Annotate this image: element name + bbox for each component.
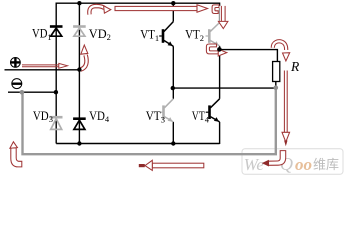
svg-text:We: We <box>244 155 265 174</box>
arrow curl at top of VD2 branch <box>89 6 110 15</box>
wire bottom rail <box>56 143 219 145</box>
svg-text:VD3: VD3 <box>33 109 53 124</box>
diode VD1 <box>50 25 63 36</box>
diode VD3 <box>50 116 63 129</box>
wire VD1/VD3 branch vertical <box>55 3 57 144</box>
arrow curl at node B turning right <box>206 44 226 56</box>
svg-text:维库: 维库 <box>313 157 339 172</box>
junction dot positive lead at VD2 branch <box>77 67 81 71</box>
wire VT4 emitter to bottom rail <box>219 122 221 144</box>
wire VD2/VD4 branch vertical <box>78 3 80 143</box>
arrow jog at top right corner <box>212 5 219 14</box>
transistor VT1 <box>159 22 173 47</box>
watermark box <box>242 149 343 175</box>
arrow turning up into VD2 branch <box>81 45 88 70</box>
svg-text:VT3: VT3 <box>146 109 165 124</box>
arrow hook at resistor top <box>273 41 290 61</box>
junction dot negative lead at VD1 branch <box>54 90 58 94</box>
arrow curl bottom left turning up <box>10 142 22 167</box>
gray return wire <box>23 88 276 154</box>
svg-text:R: R <box>290 59 300 74</box>
svg-text:VT4: VT4 <box>192 109 210 124</box>
svg-text:oo: oo <box>295 155 312 174</box>
svg-text:VT1: VT1 <box>140 27 159 42</box>
junction dot node A <box>171 86 175 90</box>
wire node A to resistor bottom <box>173 87 275 89</box>
wire resistor bottom stub <box>275 82 277 89</box>
transistor VT4 <box>206 99 220 122</box>
transistor VT3 <box>160 99 174 122</box>
diode VD4 <box>73 117 86 129</box>
wire VT1 collector stub <box>172 3 174 22</box>
wire positive source lead <box>5 69 80 71</box>
svg-text:VD2: VD2 <box>89 27 111 42</box>
svg-text:VD4: VD4 <box>89 109 110 124</box>
arrow long down beside resistor <box>282 71 290 147</box>
wire top rail <box>56 2 219 4</box>
arrow from positive terminal <box>22 63 68 68</box>
junction dot node B <box>217 47 222 52</box>
arrow curl bottom right turning left <box>262 151 286 167</box>
wire negative source lead <box>8 91 56 93</box>
junction dot VD2 top <box>77 1 81 5</box>
wire VT2 emitter to VT4 collector <box>219 46 221 99</box>
wire VT3 emitter to bottom rail <box>172 122 174 144</box>
gray junction dot at negative terminal <box>20 90 25 95</box>
wire VT1 emitter to VT3 collector <box>172 46 174 99</box>
arrow long along top rail <box>115 5 208 13</box>
gray junction dot at resistor bottom <box>274 85 279 90</box>
wire node B to resistor top <box>220 50 278 62</box>
wire VT2 collector stub <box>219 3 221 23</box>
junction dot VD4 bottom <box>77 141 81 145</box>
svg-text:VT2: VT2 <box>185 27 204 42</box>
junction dot VT1 top <box>171 1 175 5</box>
diode VD2 <box>73 25 86 36</box>
svg-text:VD1: VD1 <box>32 26 52 41</box>
arrow long pointing left along bottom <box>139 160 204 170</box>
source negative terminal <box>12 79 22 89</box>
transistor VT2 <box>206 23 220 46</box>
arrow down into VT2 branch <box>218 6 228 29</box>
junction dot VT3 bottom <box>171 141 175 145</box>
source positive terminal <box>11 58 21 68</box>
resistor R <box>273 62 280 82</box>
